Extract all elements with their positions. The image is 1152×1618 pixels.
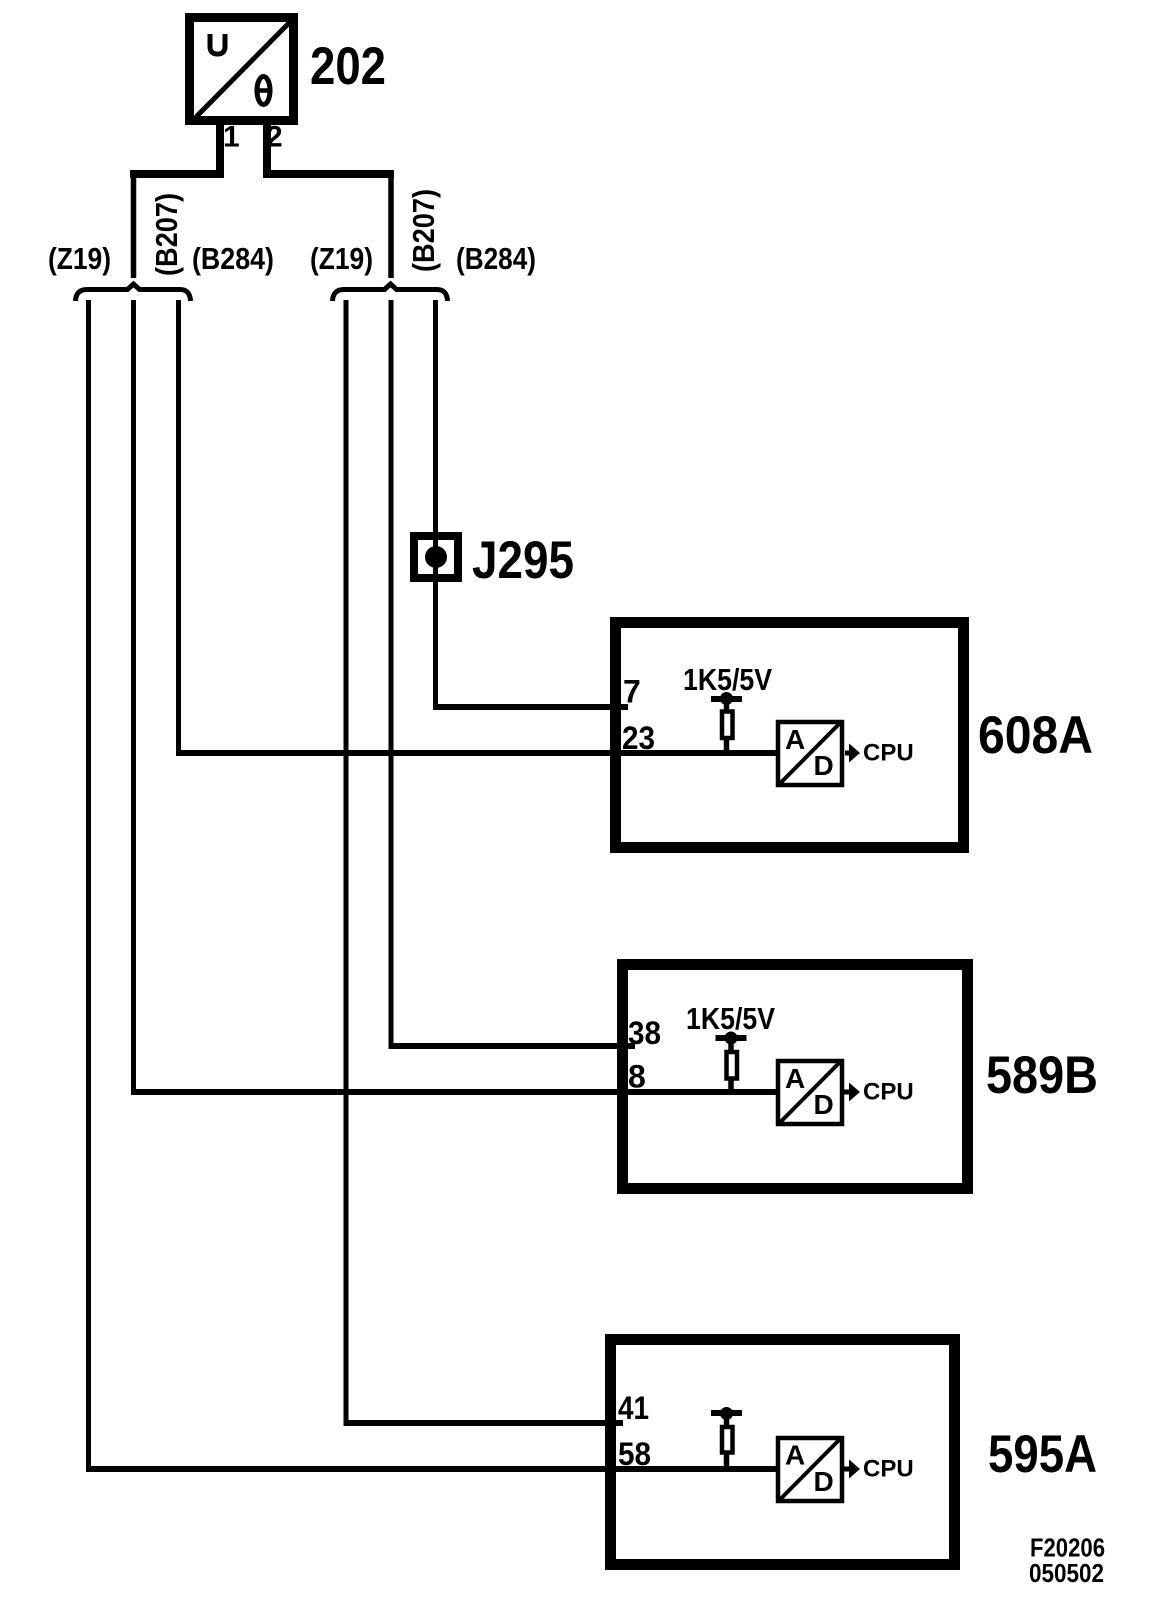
svg-text:A: A: [785, 1063, 805, 1094]
resistor lead lower 608A: [724, 738, 730, 753]
wire (B284) left vertical: [176, 300, 181, 756]
sensor 202 symbol theta: [255, 77, 273, 105]
svg-text:1K5/5V: 1K5/5V: [683, 662, 772, 697]
ECU box 595A: [611, 1340, 955, 1565]
resistor 1K5 595A: [722, 1427, 733, 1453]
resistor 1K5 608A: [722, 712, 733, 739]
svg-text:(B284): (B284): [456, 241, 536, 276]
5V supply bar 608A: [711, 696, 742, 702]
resistor lead lower 595A: [724, 1453, 730, 1469]
wire to pin 58: [86, 1466, 780, 1472]
svg-text:050502: 050502: [1029, 1558, 1104, 1588]
arrow to CPU 595A: [844, 1460, 860, 1479]
svg-text:58: 58: [618, 1436, 651, 1472]
wire to pin 38: [389, 1043, 636, 1049]
A/D diagonal 589B: [781, 1062, 841, 1123]
svg-text:589B: 589B: [986, 1046, 1098, 1105]
svg-text:A: A: [785, 1440, 805, 1471]
wire to pin 7: [433, 704, 628, 710]
A/D converter box 589B: [778, 1061, 842, 1124]
svg-text:(Z19): (Z19): [310, 241, 373, 276]
ECU box 608A: [616, 623, 964, 848]
svg-text:38: 38: [628, 1015, 661, 1051]
wire (B207) right vertical: [389, 300, 394, 1049]
svg-text:(Z19): (Z19): [48, 241, 111, 276]
svg-text:D: D: [814, 1466, 834, 1497]
svg-text:CPU: CPU: [863, 1079, 914, 1106]
svg-text:595A: 595A: [988, 1425, 1097, 1484]
resistor lead upper 589B: [728, 1038, 734, 1052]
junction J295 dot: [425, 546, 447, 568]
svg-text:J295: J295: [472, 531, 574, 590]
wire (B207) left vertical: [131, 300, 136, 1095]
svg-text:CPU: CPU: [863, 1456, 914, 1483]
sensor 202 diagonal: [196, 22, 290, 117]
svg-text:(B207): (B207): [406, 189, 441, 272]
svg-text:A: A: [785, 724, 805, 755]
wire left feed vertical: [131, 170, 137, 278]
splice brace left: [76, 284, 191, 301]
svg-text:41: 41: [618, 1390, 649, 1426]
svg-text:D: D: [814, 750, 834, 781]
5V supply bar 595A: [711, 1410, 742, 1416]
arrow to CPU 608A: [845, 744, 860, 763]
5V supply dot 589B: [725, 1032, 738, 1045]
sensor 202 body: [190, 18, 294, 121]
A/D converter box 608A: [778, 722, 842, 785]
pin 1 wire: [216, 121, 224, 170]
wire to pin 8: [131, 1089, 782, 1095]
svg-text:2: 2: [266, 121, 283, 154]
arrow to CPU 589B: [844, 1083, 860, 1102]
5V supply bar 589B: [716, 1035, 747, 1041]
A/D diagonal 608A: [781, 723, 841, 784]
A/D converter box 595A: [778, 1438, 842, 1501]
wire (Z19) left vertical: [86, 300, 91, 1472]
svg-text:D: D: [814, 1089, 834, 1120]
wire (Z19) right vertical: [344, 300, 349, 1426]
wire pin 1 branch horizontal: [130, 170, 224, 178]
svg-text:8: 8: [628, 1059, 646, 1095]
svg-text:202: 202: [310, 37, 386, 96]
resistor lead lower 589B: [728, 1078, 734, 1092]
junction box J295: [414, 536, 458, 578]
resistor lead upper 595A: [724, 1413, 730, 1427]
svg-text:(B207): (B207): [149, 193, 184, 276]
5V supply dot 608A: [720, 692, 733, 705]
wire (B284) right vertical: [433, 300, 438, 710]
pin 2 wire: [263, 121, 271, 170]
resistor 1K5 589B: [727, 1052, 738, 1079]
svg-text:1K5/5V: 1K5/5V: [686, 1001, 775, 1036]
svg-text:CPU: CPU: [863, 740, 914, 767]
resistor lead upper 608A: [724, 698, 730, 711]
ECU box 589B: [623, 965, 968, 1189]
wire to pin 41: [344, 1420, 624, 1426]
splice brace right: [333, 284, 448, 301]
5V supply dot 595A: [720, 1407, 733, 1420]
A/D diagonal 595A: [781, 1439, 841, 1500]
wire right feed vertical: [388, 170, 394, 278]
sensor 202 symbol U: [210, 34, 225, 54]
wire to pin 23: [176, 750, 780, 756]
svg-text:1: 1: [223, 121, 240, 154]
svg-text:608A: 608A: [978, 706, 1093, 765]
svg-text:7: 7: [623, 674, 641, 710]
svg-text:23: 23: [622, 720, 655, 756]
wire pin 2 branch horizontal: [263, 170, 394, 178]
svg-text:(B284): (B284): [192, 241, 274, 276]
